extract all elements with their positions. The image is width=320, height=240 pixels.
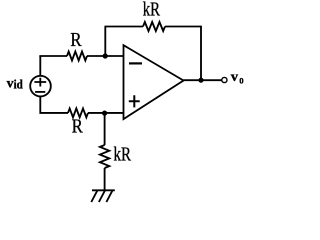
wire: top input lead into op-amp inverting input (87, 55, 124, 57)
wire: source top stub (39, 56, 41, 76)
value label R (top) (70, 29, 82, 51)
label vo (231, 70, 244, 86)
svg-text:v: v (231, 70, 238, 85)
wire: feedback right vertical down to output node (200, 26, 202, 80)
resistor kR (to ground) (100, 145, 109, 168)
node: inverting input junction dot (103, 53, 108, 58)
source vid (independent voltage source) (30, 76, 51, 97)
value label kR (feedback) (143, 0, 161, 21)
resistor R (bottom, to non-inverting input) (68, 108, 88, 117)
wire: bottom input lead into op-amp non-inverting input (88, 112, 124, 114)
wire: feedback top horizontal right lead (165, 26, 201, 28)
wire: top input horizontal left lead (40, 54, 67, 57)
node: output junction dot (198, 78, 203, 83)
svg-text:o: o (239, 72, 243, 86)
terminal: output open circle (222, 77, 227, 82)
wire: feedback left vertical from inverting node up (104, 27, 106, 57)
resistor R (top, to inverting input) (67, 52, 87, 61)
wire: vertical from non-inverting node down to kR (104, 113, 106, 145)
wire: output from op-amp apex to terminal (184, 79, 222, 81)
wire: source bottom stub (40, 96, 68, 113)
resistor kR (feedback) (143, 22, 165, 31)
value label R (bottom) (72, 116, 84, 138)
ground (91, 190, 115, 202)
svg-text:v: v (7, 77, 14, 92)
svg-text:R: R (72, 116, 84, 138)
op-amp U1 (124, 45, 184, 119)
node: non-inverting input junction dot (102, 111, 107, 116)
svg-text:kR: kR (143, 0, 161, 21)
label vid (7, 76, 24, 91)
wire: kR bottom stub to ground (104, 168, 106, 190)
svg-text:kR: kR (114, 143, 132, 165)
svg-text:R: R (70, 29, 82, 51)
svg-text:id: id (14, 76, 24, 91)
wire: feedback top horizontal left lead (105, 26, 144, 28)
value label kR (to ground) (114, 143, 132, 165)
